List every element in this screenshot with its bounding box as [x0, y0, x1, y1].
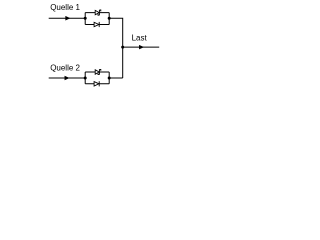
wire: bottom block to bus [109, 77, 123, 79]
wire: bottom block top branch [85, 71, 109, 73]
node: top block left junction [84, 17, 87, 20]
arrow on Last wire [139, 45, 143, 48]
wire: top block right vertical [108, 13, 110, 25]
wire: bottom block right vertical [108, 72, 110, 84]
node: bottom block left junction [84, 77, 87, 80]
svg-text:Last: Last [132, 34, 148, 43]
arrow on Quelle 1 wire [66, 17, 70, 20]
wire: Quelle 2 lead-in [49, 77, 85, 79]
wire: top block left vertical [84, 13, 86, 25]
wire: output to Last [123, 46, 160, 48]
svg-text:Quelle 1: Quelle 1 [50, 3, 80, 12]
wire: Quelle 1 lead-in [49, 17, 85, 19]
wire: bottom block left vertical [84, 72, 86, 84]
arrow on Quelle 2 wire [65, 76, 69, 79]
node: bottom block right junction [108, 77, 111, 80]
wire: top block to bus corner, bus down [109, 18, 123, 78]
schottky diode D3 (bottom block top branch) [95, 69, 101, 74]
wire: top block bottom branch [85, 24, 109, 26]
wire: bottom block bottom branch [85, 83, 109, 85]
svg-text:Quelle 2: Quelle 2 [50, 63, 80, 72]
diode D4 (bottom block bottom branch) [94, 81, 99, 86]
node: top block right junction [108, 17, 111, 20]
node: output junction on bus [121, 46, 124, 49]
diode D2 (top block bottom branch) [94, 22, 99, 27]
wire: top block top branch [85, 12, 109, 14]
schottky diode D1 (top block top branch) [95, 10, 101, 15]
